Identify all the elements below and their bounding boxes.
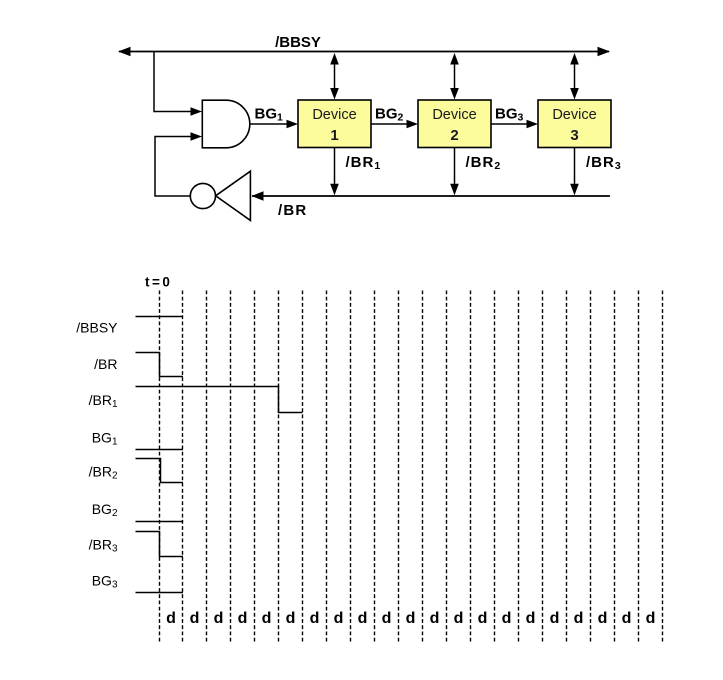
svg-text:1: 1 [330,127,338,144]
waveform BG1 [136,449,184,451]
svg-text:d: d [310,610,320,627]
svg-text:d: d [214,610,224,627]
wire /BR1 from Device 1 down to /BR line [330,148,339,196]
AND gate U1 [202,100,250,148]
svg-text:d: d [406,610,416,627]
wire Device 1 to /BBSY bus (double-headed arrow) [330,53,339,100]
svg-text:3: 3 [570,127,578,144]
svg-text:d: d [622,610,632,627]
svg-text:d: d [286,610,296,627]
svg-text:d: d [526,610,536,627]
svg-text:d: d [190,610,200,627]
wire /BR2 from Device 2 down to /BR line [450,148,459,196]
svg-text:Device: Device [552,107,596,123]
waveform BG3 [136,592,184,594]
device block Device 2 [418,100,491,148]
inverter U2 triangle [216,171,251,220]
wire Device 2 to /BBSY bus (double-headed arrow) [450,53,459,100]
wire from /BBSY bus down to AND gate input A [154,52,202,116]
waveform BG2 [136,521,184,523]
wire BG2 from Device 1 to Device 2 [371,120,418,129]
waveform /BR2 [136,459,184,483]
wire /BR bus line with left arrowhead into inverter [252,191,611,200]
wire Device 3 to /BBSY bus (double-headed arrow) [570,53,579,100]
svg-text:d: d [334,610,344,627]
svg-text:/BBSY: /BBSY [275,34,321,51]
svg-text:/BR: /BR [278,202,307,219]
wire BG3 from Device 2 to Device 3 [491,120,538,129]
wire from inverter output up to AND gate input B [155,132,202,196]
svg-text:2: 2 [450,127,458,144]
svg-text:d: d [430,610,440,627]
svg-text:d: d [646,610,656,627]
svg-text:d: d [478,610,488,627]
waveform /BBSY [136,316,184,318]
svg-text:d: d [502,610,512,627]
device block Device 1 [298,100,371,148]
svg-text:d: d [382,610,392,627]
svg-text:d: d [358,610,368,627]
wire /BR3 from Device 3 down to /BR line [570,148,579,196]
wire /BBSY bus line with arrowheads both ends [118,47,610,56]
svg-text:d: d [574,610,584,627]
svg-text:Device: Device [312,107,356,123]
svg-text:t=0: t=0 [145,275,172,290]
svg-text:/BBSY: /BBSY [76,320,118,336]
svg-text:Device: Device [432,107,476,123]
wire BG1 from AND output to Device 1 [250,120,298,129]
timing grid dashed vertical lines [160,291,663,644]
inverter U2 bubble [190,183,215,208]
waveform /BR1 [136,387,303,413]
svg-text:d: d [550,610,560,627]
device block Device 3 [538,100,611,148]
svg-text:d: d [238,610,248,627]
svg-text:d: d [166,610,176,627]
svg-text:/BR: /BR [94,356,117,372]
time unit labels d [166,610,655,627]
svg-text:d: d [262,610,272,627]
waveform /BR [136,353,184,377]
waveform /BR3 [136,532,184,557]
svg-text:d: d [454,610,464,627]
svg-text:d: d [598,610,608,627]
